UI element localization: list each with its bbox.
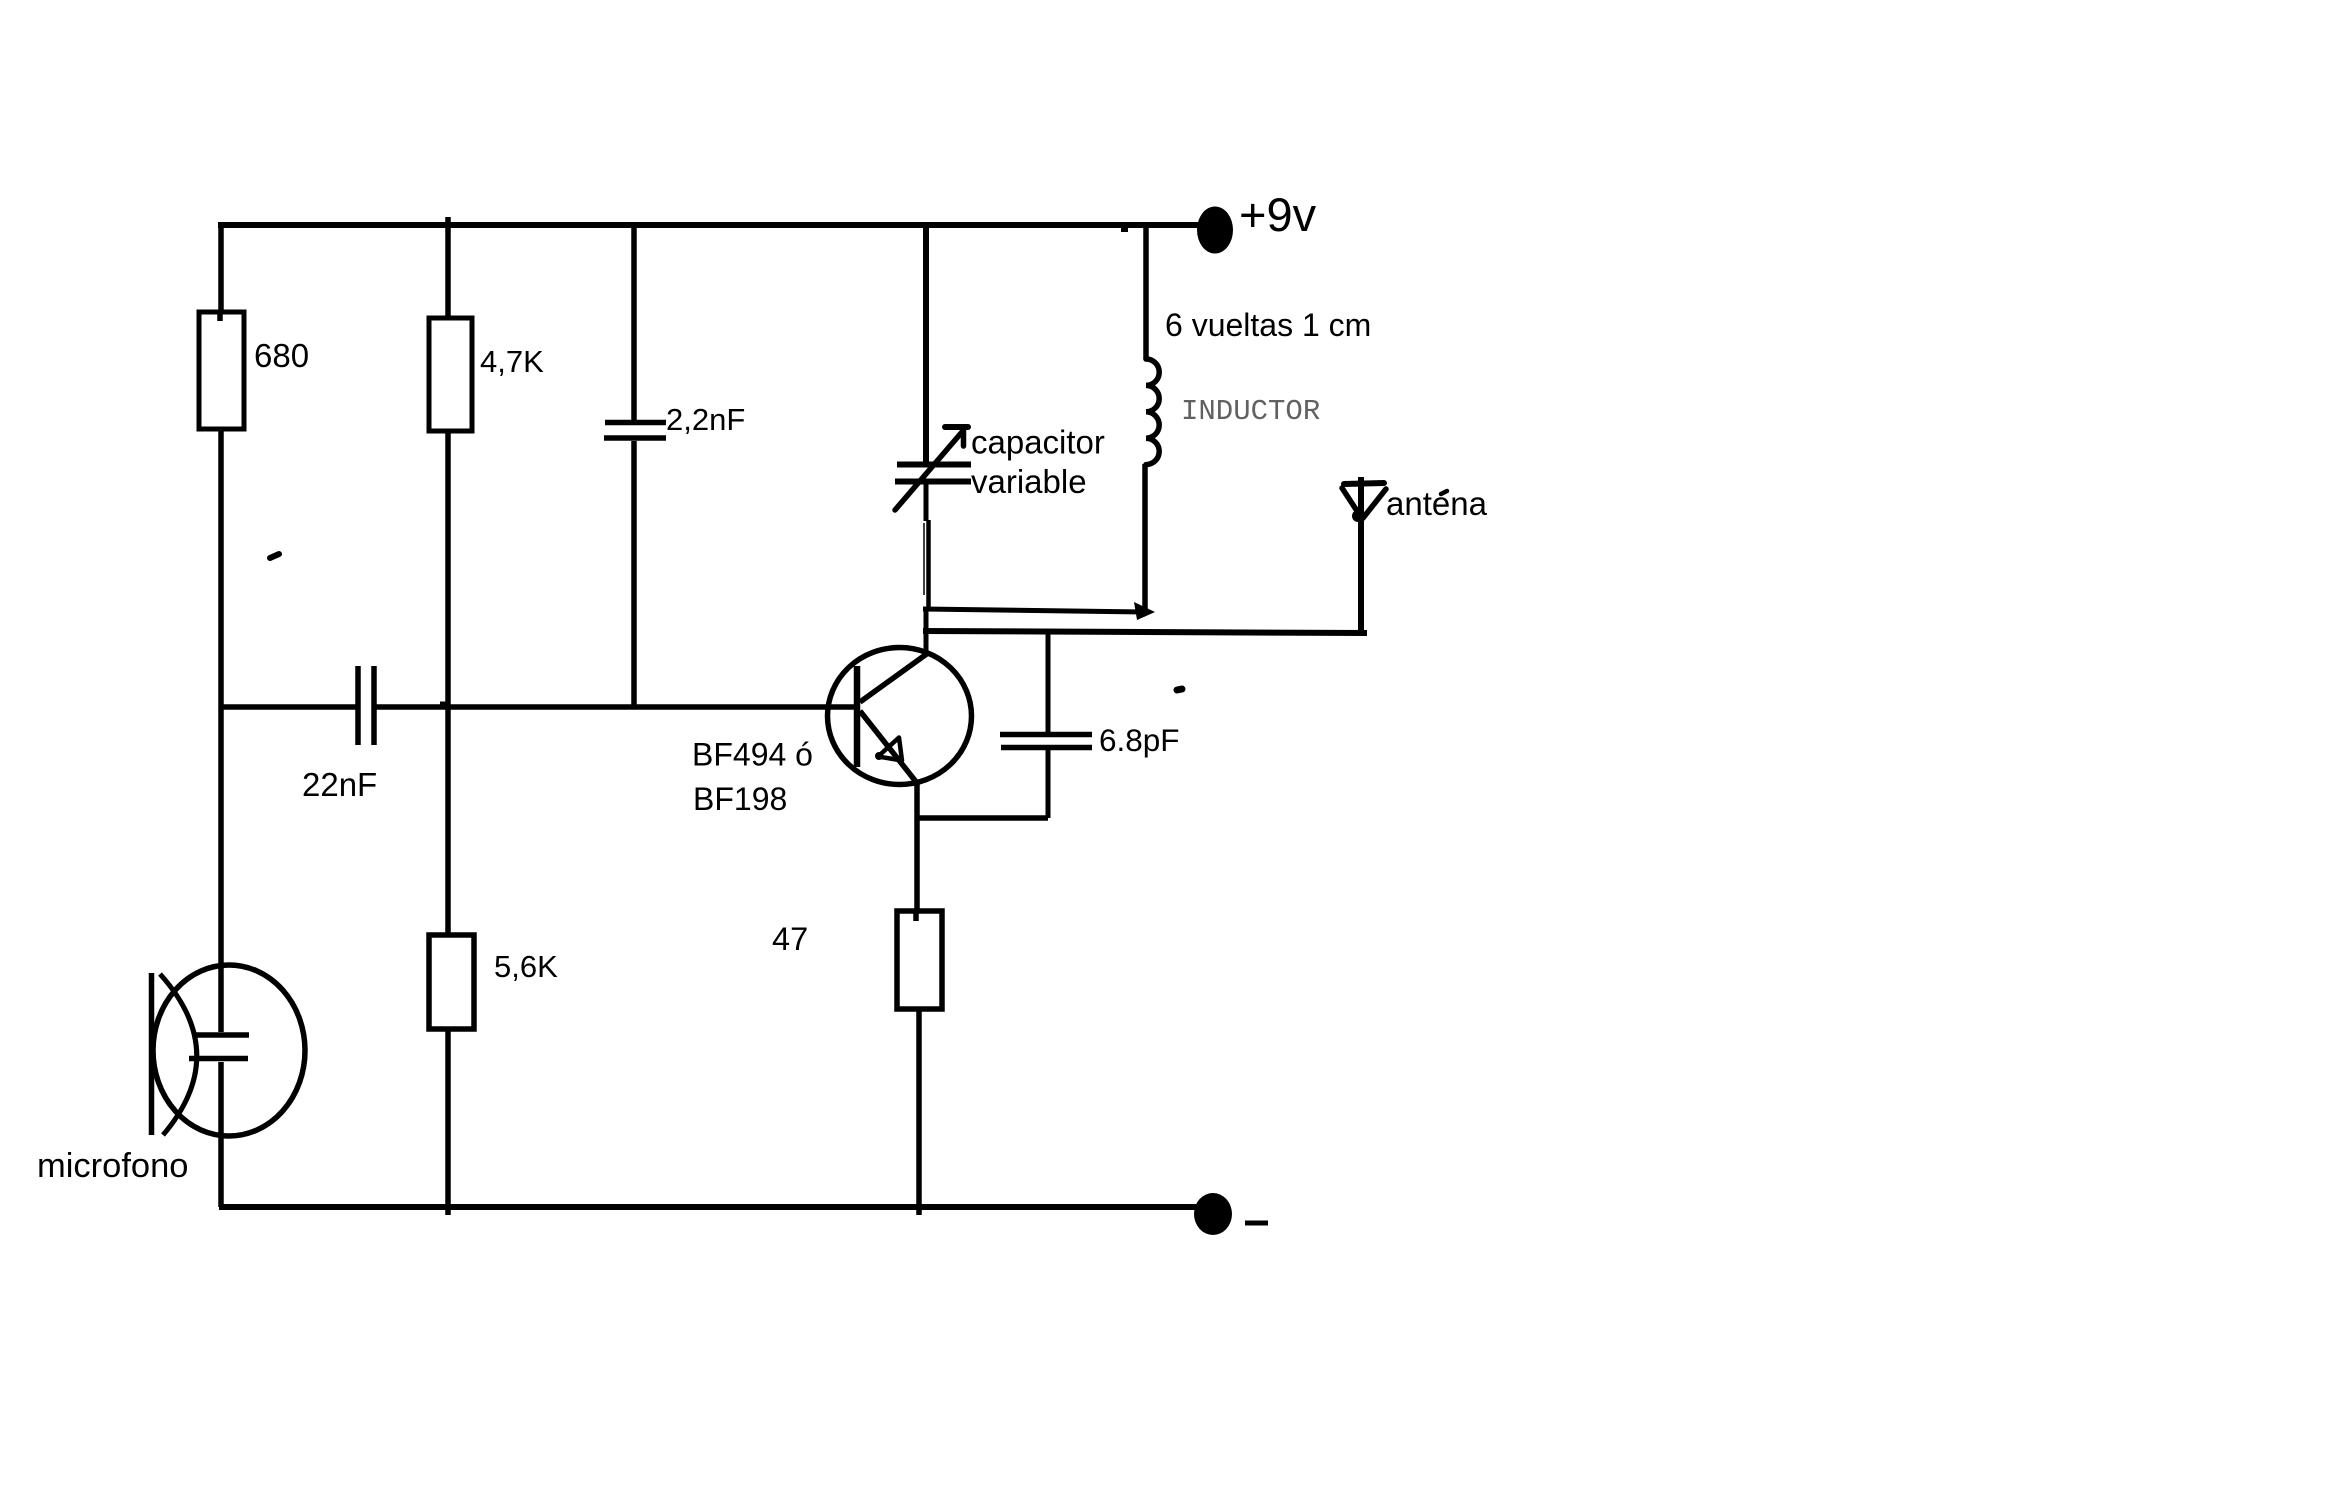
wire emitter horizontal to 6.8pF [916,815,1048,821]
wire node A horizontal to inductor [923,609,1148,612]
variable capacitor CV [895,465,971,482]
svg-text:22nF: 22nF [302,766,377,803]
svg-text:5,6K: 5,6K [494,949,558,984]
microphone MIC membrane line [149,973,155,1135]
junction tick below rail [1121,225,1128,232]
svg-text:microfono: microfono [37,1147,188,1185]
wire collector vertical [924,607,929,655]
arrowhead at inductor foot [1134,602,1155,620]
transistor Q1 emitter arrowhead [878,738,902,761]
svg-text:4,7K: 4,7K [480,344,544,379]
svg-text:6 vueltas 1 cm: 6 vueltas 1 cm [1165,307,1371,343]
svg-text:antena: antena [1386,485,1488,522]
wire mic lower [218,1062,224,1207]
resistor R 680 [199,312,244,429]
wire 5,6K to bottom rail [445,1029,451,1215]
wire 4,7K branch top tick above rail [445,217,451,320]
wire variable-capacitor branch upper [923,225,929,464]
variable capacitor arrow [895,427,968,510]
inductor L1 coil loops [1146,359,1159,465]
wire 2,2nF branch upper [631,225,637,420]
resistor R 4,7K [429,318,472,431]
wire base horizontal right [375,704,857,710]
wire 47 to bottom rail [916,1009,922,1215]
microphone MIC body circle [153,965,305,1136]
transistor Q1 collector stroke [860,653,928,702]
capacitor 2,2nF [604,423,666,439]
wire antenna horizontal [923,631,1367,633]
svg-text:BF198: BF198 [693,781,787,817]
wire left branch upper [218,222,224,314]
transistor Q1 circle [828,648,972,785]
power terminal +9v dot [1197,207,1233,254]
transistor Q1 emitter stroke [860,711,917,783]
antenna symbol [1342,477,1386,632]
accent dot above antena e [1441,491,1447,494]
svg-text:2,2nF: 2,2nF [666,402,745,437]
capacitor 6.8pF [1000,735,1092,748]
microphone MIC membrane arc [160,974,197,1135]
label minus sign [1245,1221,1268,1226]
wire 4,7K to base junction [445,431,451,935]
wire mic upper [218,707,224,1032]
svg-text:variable: variable [971,463,1087,500]
stray dash mark right [1177,689,1182,690]
negative terminal dot [1194,1193,1232,1235]
stray dash mark left [270,554,279,558]
svg-text:680: 680 [254,337,309,374]
capacitor 6.8pF branch lower [1046,749,1051,818]
wire emitter vertical [914,782,920,911]
wire base horizontal left [221,704,356,710]
svg-text:BF494 ó: BF494 ó [692,737,813,773]
svg-text:47: 47 [772,921,808,957]
resistor R 5,6K [429,935,474,1029]
microphone MIC internal plates [189,1035,249,1059]
capacitor 6.8pF branch upper [1046,632,1051,733]
resistor R 47 [897,911,942,1009]
wire left branch middle [218,429,224,707]
wire variable-capacitor branch lower [924,482,929,610]
junction blob at 22nF right [440,702,448,709]
wire bottom rail [219,1204,1196,1210]
transistor Q1 base bar [854,666,861,767]
wire 2,2nF branch lower [631,441,637,707]
wire top +9v rail [218,222,1199,228]
svg-text:capacitor: capacitor [971,424,1105,461]
svg-text:6.8pF: 6.8pF [1099,722,1180,758]
svg-text:INDUCTOR: INDUCTOR [1181,395,1320,428]
inductor L1 upper wire [1143,228,1149,359]
inductor L1 lower wire [1142,464,1148,609]
capacitor 22nF [358,666,374,745]
svg-text:+9v: +9v [1239,188,1317,241]
